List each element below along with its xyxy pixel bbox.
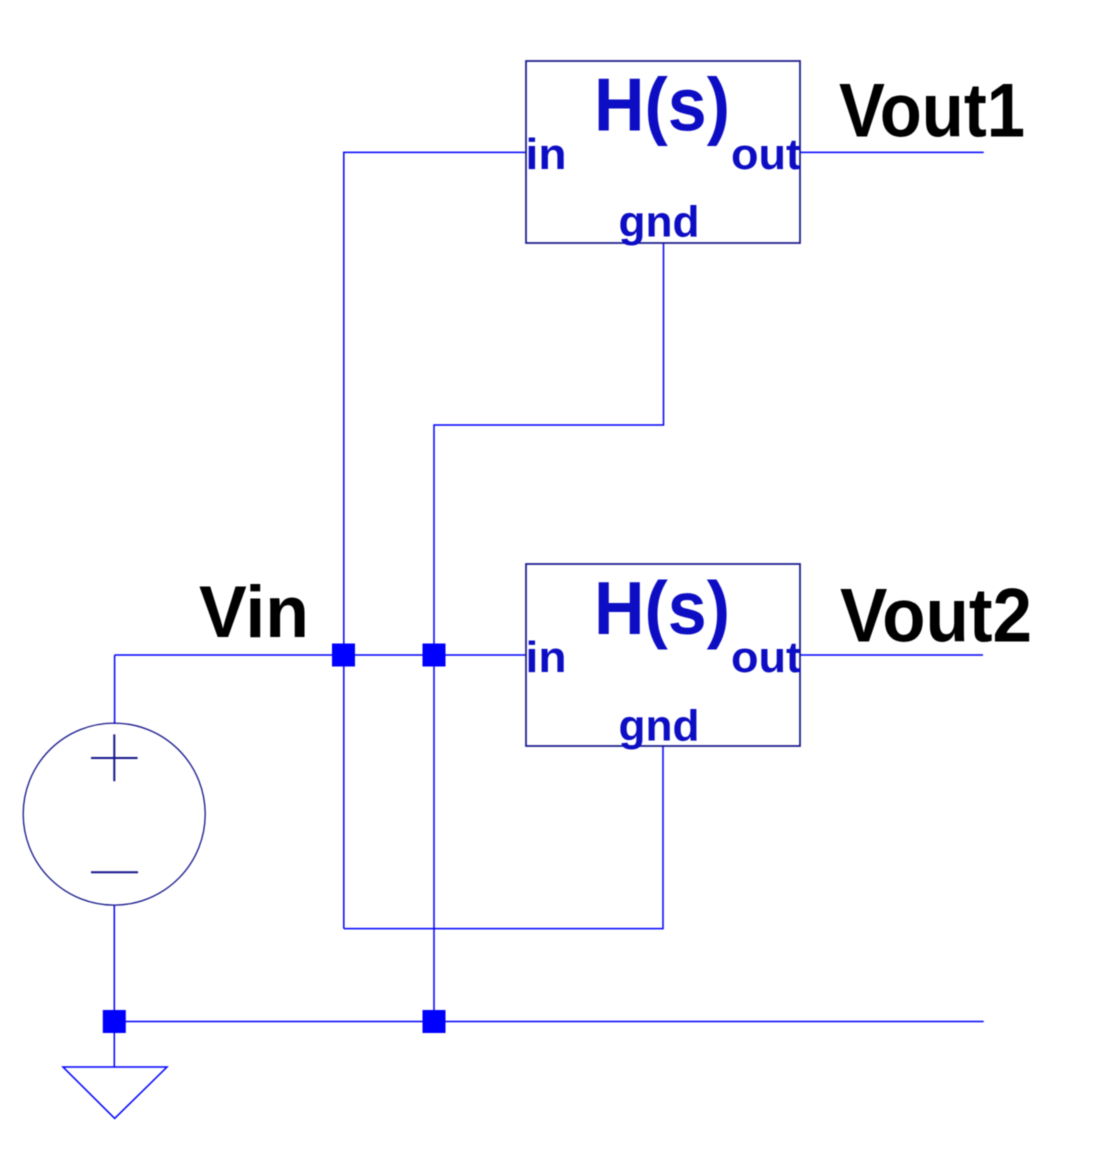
svg-text:Vout2: Vout2 [840,574,1032,659]
svg-text:in: in [526,130,567,179]
svg-text:H(s): H(s) [594,566,730,650]
svg-text:Vout1: Vout1 [839,69,1025,154]
svg-text:gnd: gnd [619,198,700,247]
svg-text:out: out [731,633,801,682]
svg-text:out: out [731,130,801,179]
svg-text:Vin: Vin [199,572,309,653]
svg-text:gnd: gnd [619,701,700,750]
svg-text:in: in [526,633,567,682]
svg-text:H(s): H(s) [594,63,730,147]
